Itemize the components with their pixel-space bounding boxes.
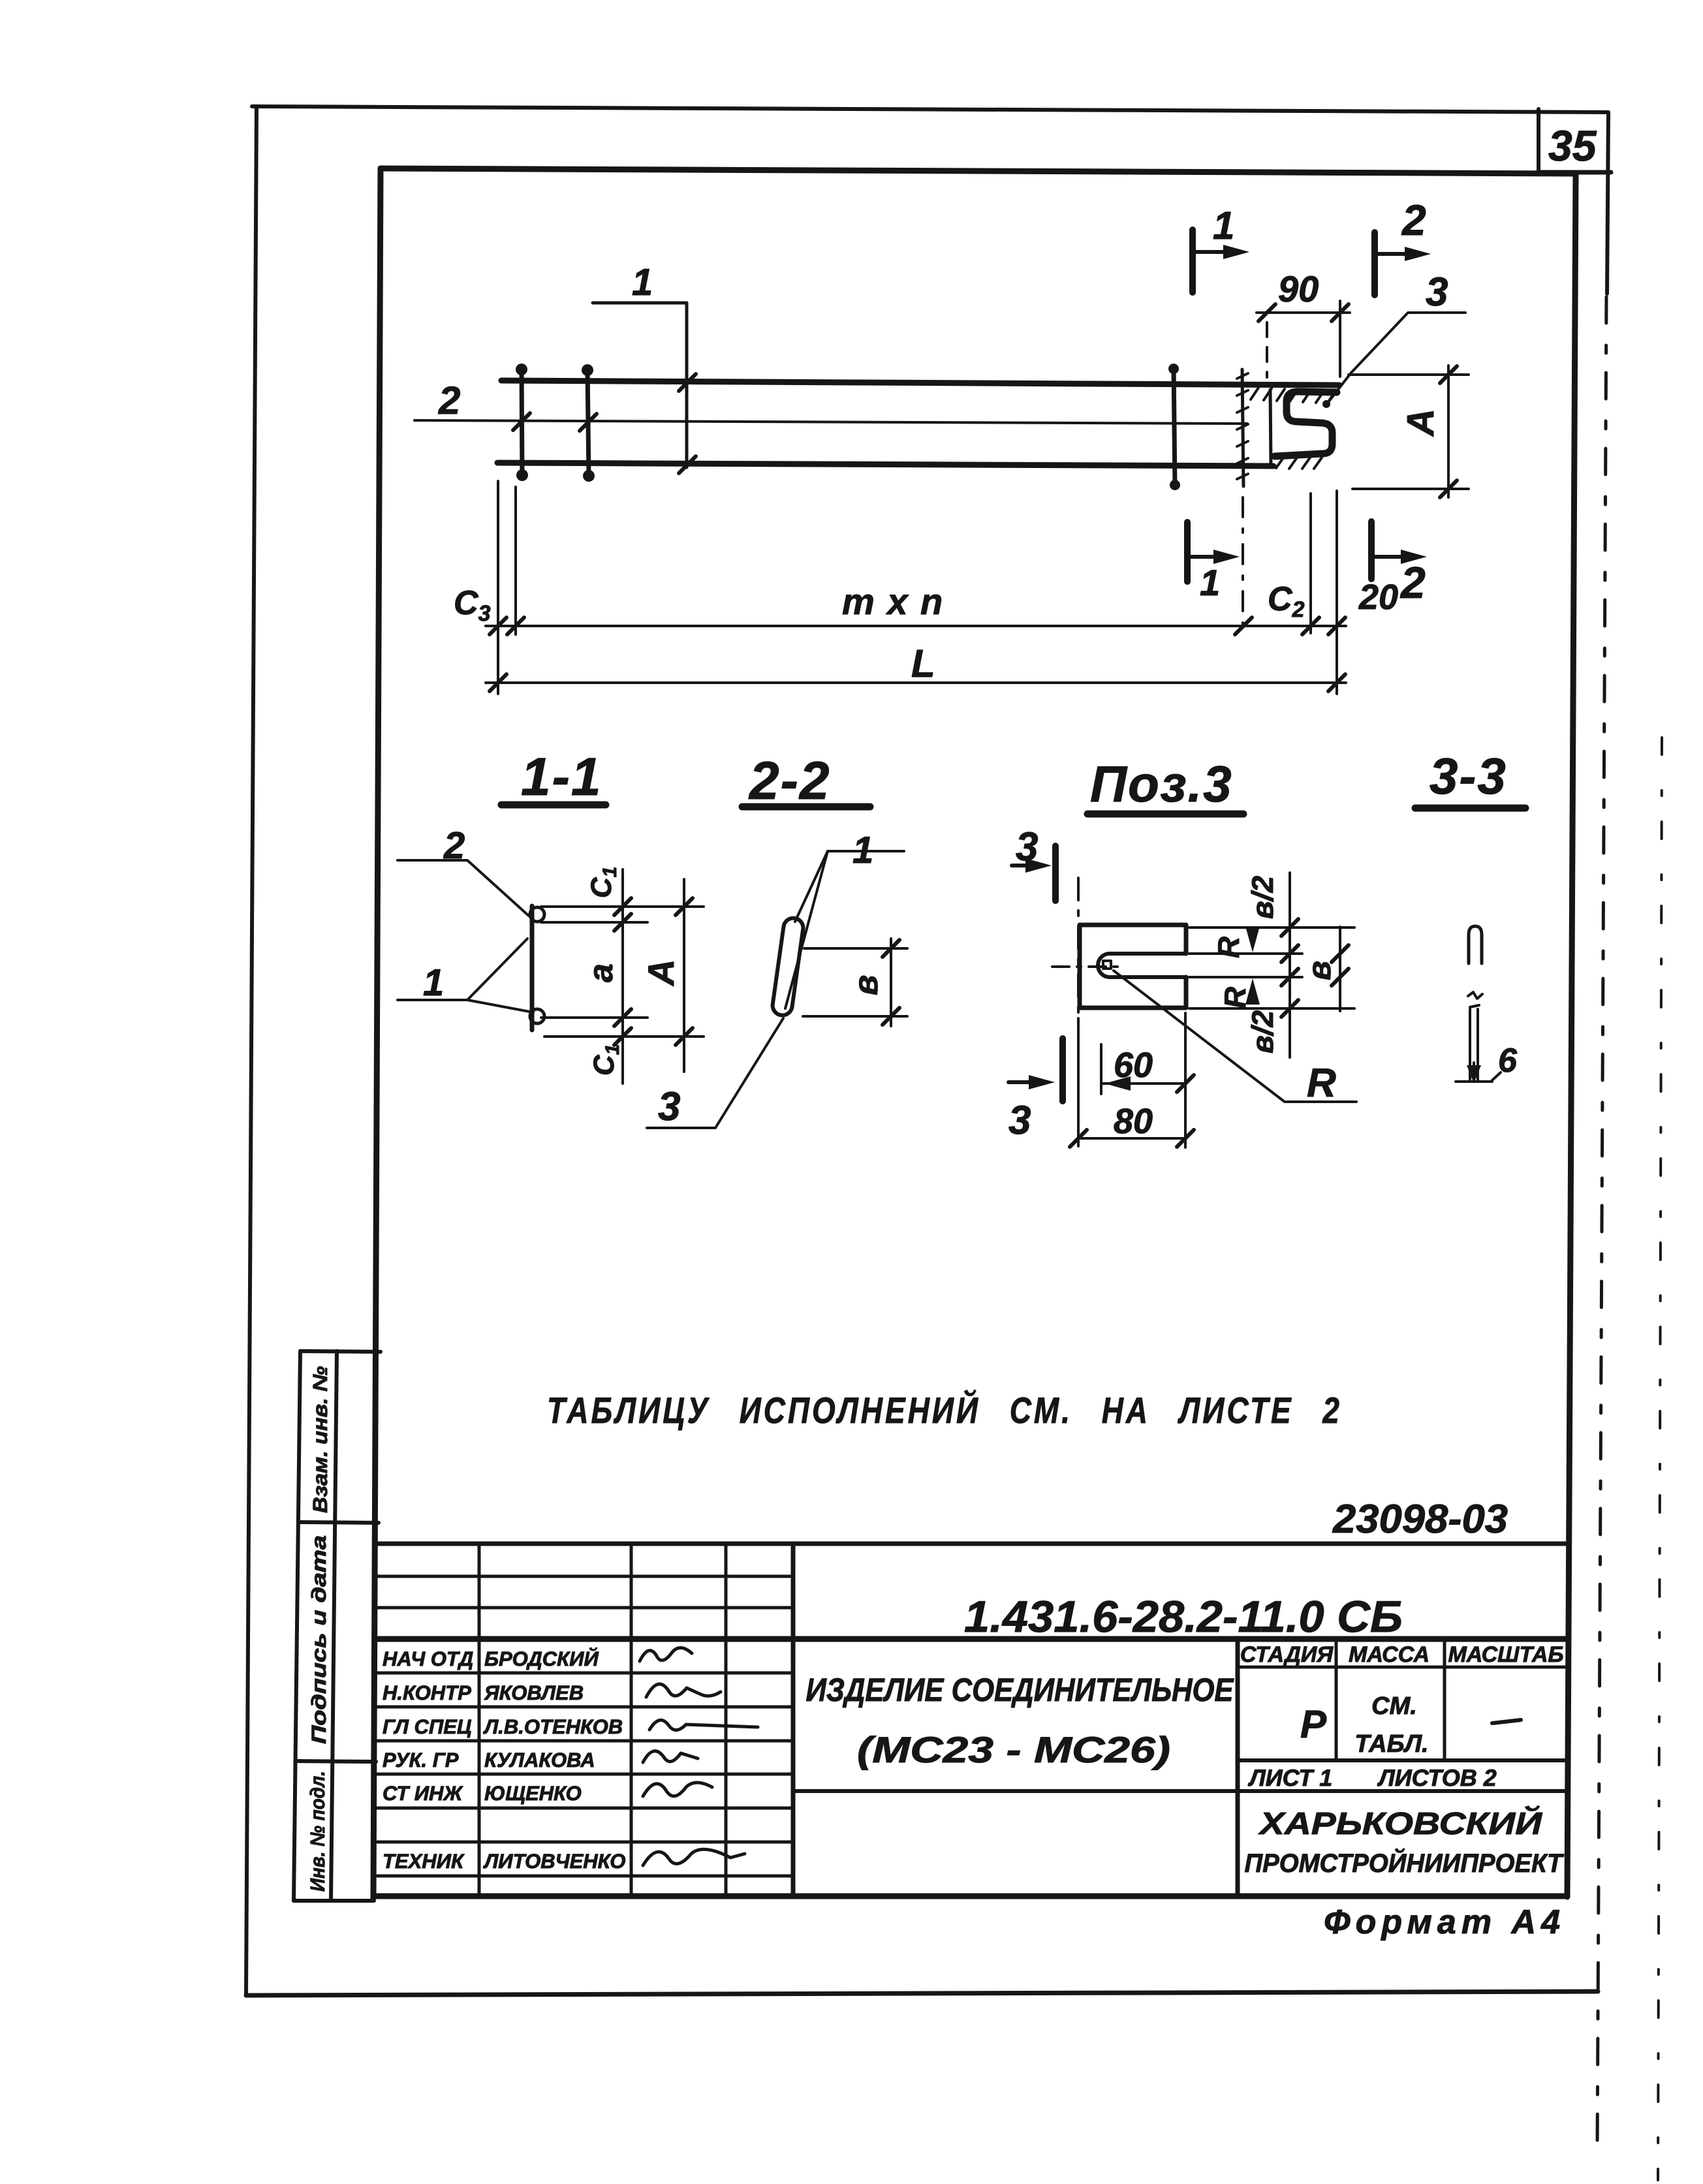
- dim 80: [1077, 1018, 1080, 1146]
- bottom bar cross-section: [530, 1009, 544, 1023]
- svg-text:СМ.: СМ.: [1371, 1693, 1417, 1720]
- svg-text:в: в: [847, 975, 885, 995]
- svg-text:ЛИТОВЧЕНКО: ЛИТОВЧЕНКО: [483, 1850, 625, 1873]
- outer border top: [252, 106, 1607, 112]
- svg-text:2: 2: [438, 379, 460, 422]
- outer border left: [246, 106, 257, 1995]
- bar bottom edge: [497, 463, 1273, 466]
- svg-text:БРОДСКИЙ: БРОДСКИЙ: [484, 1647, 599, 1670]
- svg-text:ГЛ СПЕЦ: ГЛ СПЕЦ: [383, 1715, 472, 1738]
- svg-text:Формат А4: Формат А4: [1324, 1903, 1565, 1941]
- title block outline rows: [377, 1542, 1567, 1546]
- svg-text:Н.КОНТР: Н.КОНТР: [383, 1681, 471, 1704]
- section flag 1 bottom: [1184, 522, 1191, 582]
- inner frame right: [1567, 174, 1576, 1897]
- svg-text:1.431.6-28.2-11.0 СБ: 1.431.6-28.2-11.0 СБ: [964, 1592, 1403, 1642]
- S-hook (bent connecting plate end): [1275, 392, 1337, 456]
- svg-text:МАСШТАБ: МАСШТАБ: [1448, 1642, 1563, 1667]
- slot (bar oval cross-section): [772, 917, 805, 1017]
- section flag 3 bottom: [1059, 1038, 1066, 1101]
- extension lines right: [1189, 952, 1302, 955]
- svg-text:ЛИСТОВ 2: ЛИСТОВ 2: [1377, 1764, 1497, 1791]
- sheet number box "35": [1537, 109, 1540, 173]
- dim line b: [1339, 927, 1341, 1011]
- plate left edge (weld): [1270, 390, 1271, 463]
- bar top edge: [501, 381, 1339, 385]
- weld seam vertical at plate joint: [1242, 369, 1243, 486]
- outer border right (broken/dashed): [1607, 112, 1608, 294]
- svg-text:A: A: [1399, 409, 1442, 437]
- A dim extensions: [1349, 373, 1469, 376]
- slot edges: [1110, 952, 1186, 956]
- svg-text:СТ ИНЖ: СТ ИНЖ: [383, 1782, 463, 1805]
- svg-text:ЯКОВЛЕВ: ЯКОВЛЕВ: [484, 1681, 584, 1704]
- svg-text:РУК. ГР: РУК. ГР: [383, 1749, 459, 1771]
- dim b: [804, 947, 907, 950]
- svg-text:КУЛАКОВА: КУЛАКОВА: [484, 1749, 595, 1771]
- svg-text:3-3: 3-3: [1430, 747, 1507, 805]
- svg-text:R: R: [1307, 1061, 1336, 1106]
- svg-text:ТАБЛ.: ТАБЛ.: [1354, 1730, 1428, 1758]
- plate edge-on: [530, 906, 535, 1030]
- svg-text:ЮЩЕНКО: ЮЩЕНКО: [484, 1782, 582, 1805]
- svg-text:ТЕХНИК: ТЕХНИК: [383, 1850, 465, 1873]
- slot rounded end: [1098, 954, 1110, 977]
- svg-text:C1: C1: [586, 867, 621, 898]
- fold mark dashes far right: [1658, 738, 1662, 2180]
- svg-text:2: 2: [1399, 558, 1426, 608]
- svg-text:МАССА: МАССА: [1349, 1642, 1430, 1667]
- weld tick left 1: [522, 367, 522, 477]
- svg-text:в: в: [1301, 961, 1337, 980]
- plate outline: [1080, 925, 1186, 1008]
- svg-text:1: 1: [423, 961, 444, 1004]
- svg-text:Л.В.ОТЕНКОВ: Л.В.ОТЕНКОВ: [483, 1715, 623, 1738]
- svg-text:2-2: 2-2: [748, 751, 831, 811]
- svg-text:ЛИСТ 1: ЛИСТ 1: [1247, 1764, 1332, 1791]
- svg-text:A: A: [640, 959, 681, 987]
- dim line A: [683, 879, 685, 1072]
- left part rows: [377, 1575, 793, 1578]
- inner frame left: [373, 168, 381, 1898]
- dim 60: [1100, 1044, 1102, 1094]
- L dimension: [486, 681, 1346, 684]
- svg-text:3: 3: [658, 1084, 680, 1129]
- svg-text:C3: C3: [454, 584, 491, 626]
- top bar cross-section: [530, 907, 544, 922]
- svg-text:1: 1: [1200, 562, 1220, 603]
- svg-text:C2: C2: [1268, 580, 1305, 622]
- svg-text:Инв. № подл.: Инв. № подл.: [306, 1771, 329, 1892]
- svg-text:Поз.3: Поз.3: [1090, 755, 1233, 813]
- svg-text:35: 35: [1548, 121, 1597, 170]
- slot centreline: [1052, 965, 1117, 968]
- svg-text:3: 3: [1008, 1098, 1031, 1143]
- strip top end: [1469, 926, 1482, 963]
- svg-text:3: 3: [1426, 270, 1448, 315]
- inner frame top: [381, 168, 1576, 174]
- strip grid: [294, 1351, 300, 1901]
- dim 6 (thickness): [1456, 1080, 1492, 1083]
- svg-text:ПРОМСТРОЙНИИПРОЕКТ: ПРОМСТРОЙНИИПРОЕКТ: [1245, 1848, 1565, 1878]
- weld hatch along hook top: [1251, 388, 1336, 403]
- svg-text:Р: Р: [1300, 1702, 1327, 1746]
- svg-text:90: 90: [1278, 268, 1319, 309]
- svg-text:ТАБЛИЦУ ИСПОЛНЕНИЙ СМ. НА: ТАБЛИЦУ ИСПОЛНЕНИЙ СМ. НА ЛИСТЕ 2: [547, 1390, 1342, 1431]
- dim line b/2 R R b/2: [1289, 873, 1291, 1057]
- outer border bottom: [246, 1991, 1598, 1995]
- svg-text:НАЧ ОТД: НАЧ ОТД: [383, 1647, 473, 1670]
- name cell bottom: [793, 1789, 1567, 1793]
- svg-text:a: a: [582, 963, 620, 982]
- svg-text:Взам. инв. №: Взам. инв. №: [309, 1366, 332, 1513]
- svg-text:1: 1: [1213, 204, 1234, 247]
- section flag 2 top: [1371, 232, 1378, 295]
- svg-text:R: R: [1218, 987, 1252, 1008]
- svg-text:L: L: [911, 642, 935, 685]
- section flag 2 bottom: [1368, 522, 1375, 579]
- svg-text:ИЗДЕЛИЕ СОЕДИНИТЕЛЬНОЕ: ИЗДЕЛИЕ СОЕДИНИТЕЛЬНОЕ: [806, 1672, 1234, 1708]
- svg-text:(МС23 - МС26): (МС23 - МС26): [857, 1729, 1170, 1770]
- svg-text:СТАДИЯ: СТАДИЯ: [1240, 1642, 1334, 1667]
- weld tick right: [1174, 366, 1175, 487]
- break mark: [1468, 992, 1482, 999]
- svg-text:6: 6: [1498, 1042, 1518, 1080]
- svg-text:Подпись и дата: Подпись и дата: [307, 1535, 330, 1744]
- svg-text:R: R: [1211, 937, 1245, 958]
- svg-text:m x n: m x n: [842, 581, 944, 622]
- columns: [478, 1544, 481, 1896]
- slot centre mark: [1103, 961, 1111, 969]
- extension verticals under bar: [497, 481, 499, 694]
- svg-text:2: 2: [1401, 196, 1426, 244]
- svg-text:в/2: в/2: [1245, 875, 1279, 919]
- svg-text:80: 80: [1114, 1102, 1153, 1141]
- leader R: [1114, 971, 1356, 1102]
- weld hatch along hook bottom: [1276, 457, 1322, 469]
- svg-text:1-1: 1-1: [521, 747, 602, 807]
- section flag 1 top: [1189, 230, 1196, 292]
- svg-text:23098-03: 23098-03: [1332, 1497, 1508, 1542]
- bar middle line (leader 2): [414, 420, 1247, 424]
- extension lines: [541, 905, 704, 908]
- svg-text:60: 60: [1114, 1046, 1153, 1085]
- scale value dash: [1492, 1720, 1521, 1723]
- svg-text:ХАРЬКОВСКИЙ: ХАРЬКОВСКИЙ: [1257, 1805, 1542, 1841]
- weld tick left 2: [587, 367, 589, 478]
- svg-text:20: 20: [1358, 578, 1398, 617]
- A dim line: [1447, 366, 1450, 497]
- cut line 3-3: [1077, 878, 1080, 1136]
- strip body (thickness b): [1469, 1009, 1471, 1081]
- svg-text:в/2: в/2: [1245, 1010, 1279, 1053]
- dim line c1/a/c1: [621, 869, 624, 1084]
- m x n dimension chain: [486, 625, 1346, 627]
- svg-text:C1: C1: [588, 1044, 623, 1076]
- right sub-table rows: [1238, 1666, 1567, 1669]
- svg-text:1: 1: [632, 261, 653, 304]
